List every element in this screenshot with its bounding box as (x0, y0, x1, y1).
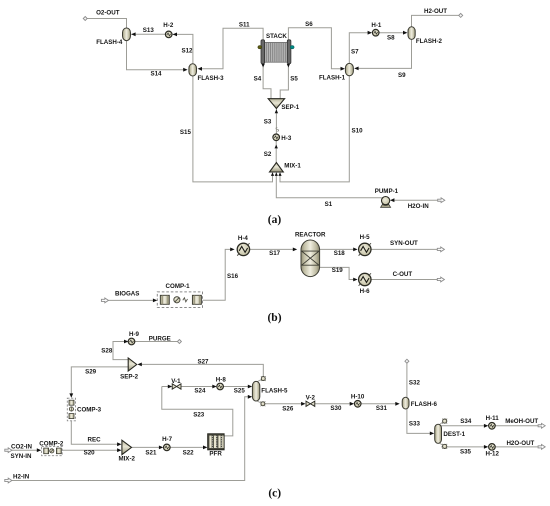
arrow S34 into H-11 (484, 424, 488, 428)
svg-text:O2-OUT: O2-OUT (96, 10, 120, 17)
feed marker H2-IN (5, 478, 12, 483)
svg-text:PFR: PFR (209, 451, 222, 458)
feed marker H2O-IN (438, 198, 445, 203)
flash drum FLASH-3 (189, 64, 197, 76)
svg-text:SYN-IN: SYN-IN (11, 453, 33, 460)
svg-text:V-2: V-2 (306, 394, 316, 401)
wire S25 (223, 386, 248, 388)
arrow S7 into H-1 (368, 31, 372, 35)
wire S32 (406, 363, 408, 397)
arrow S30 into H-10 (350, 402, 354, 406)
wire S34 (441, 425, 484, 427)
svg-text:H-12: H-12 (485, 451, 499, 458)
svg-text:PURGE: PURGE (149, 335, 171, 342)
arrow S12 into H-2 (173, 33, 177, 37)
arrow S1 into MIX-1 (275, 172, 278, 176)
arrow S26 into V-2 (301, 402, 305, 406)
svg-text:S6: S6 (305, 21, 313, 28)
arrow feed into COMP-2 (37, 448, 41, 452)
arrow S29 into COMP-3 (69, 393, 73, 397)
svg-text:S8: S8 (387, 35, 395, 42)
arrow S2 into H-3 (275, 145, 278, 149)
wire S12 (172, 34, 193, 63)
svg-text:S23: S23 (193, 412, 205, 419)
arrow S25 into FLASH-5 (248, 385, 252, 389)
arrow S13 into FLASH-4 (131, 32, 135, 36)
product marker O2-OUT (83, 17, 87, 21)
wire S35 (441, 446, 484, 448)
product marker H2O-OUT (538, 445, 545, 450)
svg-text:S3: S3 (264, 119, 272, 126)
svg-text:S25: S25 (234, 388, 246, 395)
svg-text:SYN-OUT: SYN-OUT (390, 240, 418, 247)
svg-text:H-11: H-11 (486, 415, 500, 422)
valve V-1 (172, 384, 181, 389)
svg-text:S11: S11 (239, 21, 250, 28)
flash drum FLASH-2 (408, 27, 415, 40)
wire S14 (127, 40, 184, 69)
svg-text:(a): (a) (268, 214, 282, 226)
heater H-9 (128, 338, 135, 345)
svg-text:S32: S32 (409, 380, 421, 387)
arrow S6 into FLASH-1 (341, 67, 345, 71)
svg-text:S28: S28 (101, 347, 113, 354)
svg-text:S2: S2 (264, 151, 272, 158)
svg-text:DEST-1: DEST-1 (443, 431, 465, 438)
svg-text:H2O-OUT: H2O-OUT (506, 440, 534, 447)
arrow S24 into H-8 (212, 385, 216, 389)
wire REC (71, 421, 117, 445)
fuel cell STACK (258, 40, 294, 64)
arrow S22 into PFR (203, 446, 207, 450)
svg-text:S21: S21 (145, 449, 157, 456)
heat exchanger H-5 (359, 243, 371, 255)
svg-text:H-1: H-1 (371, 22, 382, 29)
arrow H2O-IN into PUMP-1 (390, 198, 394, 202)
wire S18 (319, 248, 353, 250)
svg-text:H-5: H-5 (360, 234, 371, 241)
arrow BIOGAS into COMP-1 (153, 299, 157, 303)
arrow S14 into FLASH-3 (183, 68, 187, 72)
svg-text:S1: S1 (325, 201, 333, 208)
svg-text:S24: S24 (194, 388, 206, 395)
wire MeOH-OUT (495, 425, 538, 427)
heater H-8 (217, 383, 224, 390)
product marker C-OUT (437, 277, 444, 282)
wire S5 (280, 67, 288, 99)
svg-text:COMP-1: COMP-1 (166, 283, 191, 290)
wire S27 (141, 364, 263, 376)
distillation column DEST-1 (435, 419, 447, 449)
wire H2O-OUT (495, 446, 538, 448)
svg-text:SEP-2: SEP-2 (120, 374, 138, 381)
svg-text:H-4: H-4 (238, 235, 249, 242)
separator SEP-1 (268, 99, 284, 109)
heater H-3 (273, 134, 280, 141)
svg-text:FLASH-1: FLASH-1 (319, 74, 346, 81)
svg-text:S14: S14 (150, 71, 162, 78)
wire S33 (407, 409, 430, 434)
arrow S15 into MIX-1 (271, 172, 274, 176)
wire O2-OUT (87, 19, 127, 29)
compressor COMP-2 (42, 446, 63, 455)
svg-text:V-1: V-1 (171, 378, 181, 385)
svg-text:H-6: H-6 (360, 288, 371, 295)
wire S31 (361, 403, 396, 405)
reactor REACTOR (301, 240, 320, 277)
svg-text:(b): (b) (267, 312, 281, 324)
svg-text:H-9: H-9 (129, 331, 140, 338)
wire SYN-OUT (371, 248, 437, 250)
svg-text:S13: S13 (143, 27, 155, 34)
feed marker BIOGAS (101, 298, 108, 303)
arrow S35 into H-12 (484, 445, 488, 449)
svg-text:C-OUT: C-OUT (393, 271, 413, 278)
arrow S28 into H-9 (124, 340, 128, 344)
svg-text:S18: S18 (334, 250, 346, 257)
wire H2-IN (12, 397, 248, 481)
svg-text:S31: S31 (376, 405, 388, 412)
svg-text:MeOH-OUT: MeOH-OUT (505, 418, 538, 425)
flash drum FLASH-1 (345, 63, 353, 75)
wire BIOGAS (109, 299, 154, 301)
arrow S21 into H-7 (159, 446, 163, 450)
valve V-2 (306, 401, 315, 406)
svg-text:PUMP-1: PUMP-1 (375, 188, 399, 195)
wire S21 (132, 446, 160, 448)
svg-text:REC: REC (88, 437, 102, 444)
arrow S11 into FLASH-3 (198, 67, 202, 71)
svg-text:S30: S30 (330, 405, 342, 412)
plug flow reactor PFR (208, 434, 224, 450)
product marker SYN-OUT (437, 247, 444, 252)
arrow S10 into MIX-1 (278, 172, 281, 176)
flash drum FLASH-4 (123, 28, 131, 41)
compressor COMP-3 (67, 398, 75, 421)
svg-text:H2-IN: H2-IN (13, 474, 30, 481)
arrow S27 into SEP-2 (137, 363, 141, 367)
svg-text:MIX-1: MIX-1 (284, 163, 301, 170)
svg-text:S10: S10 (352, 127, 364, 134)
svg-text:MIX-2: MIX-2 (118, 456, 135, 463)
svg-text:S17: S17 (269, 250, 281, 257)
arrow S9 into FLASH-1 (354, 67, 358, 71)
wire S17 (250, 248, 296, 250)
wire H2-OUT (412, 15, 459, 27)
svg-text:S33: S33 (409, 420, 421, 427)
svg-text:FLASH-5: FLASH-5 (261, 388, 288, 395)
wire S8 (379, 32, 403, 34)
svg-text:S35: S35 (460, 449, 472, 456)
heater H-1 (372, 29, 379, 36)
product marker S32 (405, 359, 409, 363)
svg-text:H-2: H-2 (163, 22, 174, 29)
svg-text:S29: S29 (85, 369, 97, 376)
wire S22 (170, 446, 204, 448)
svg-text:S15: S15 (180, 129, 192, 136)
arrow S18 into H-5 (353, 248, 357, 252)
heater H-10 (354, 401, 361, 408)
arrow S23 into V-1 (168, 385, 172, 389)
svg-text:H-3: H-3 (281, 135, 292, 142)
wire S26 (265, 403, 350, 405)
heat stream mark on S3 (276, 127, 279, 131)
wire S10 (280, 76, 349, 182)
pump PUMP-1 (381, 197, 391, 208)
wire H2O-IN (393, 199, 438, 201)
arrow S19 into H-6 (353, 278, 357, 282)
arrow S16 into H-4 (230, 248, 234, 252)
wire S3 (275, 109, 277, 135)
wire CO2-IN SYN-IN (12, 449, 37, 451)
wire S4 (263, 67, 271, 99)
svg-text:S26: S26 (282, 405, 294, 412)
wire S29 (71, 367, 128, 394)
arrow S8 into FLASH-2 (403, 31, 407, 35)
mixer MIX-2 (122, 440, 132, 454)
arrow S20 into MIX-2 (117, 448, 121, 452)
wire S19 (319, 267, 353, 279)
svg-text:BIOGAS: BIOGAS (115, 291, 139, 298)
heater H-12 (489, 444, 496, 451)
arrow S33 into DEST-1 (430, 432, 434, 436)
mixer MIX-1 (270, 163, 284, 173)
svg-text:(c): (c) (268, 487, 281, 499)
feed marker CO2-IN SYN-IN (5, 448, 12, 453)
heat exchanger H-6 (359, 273, 371, 285)
svg-text:S20: S20 (84, 449, 96, 456)
svg-text:H-10: H-10 (351, 394, 365, 401)
heater H-2 (165, 31, 172, 38)
svg-text:S5: S5 (290, 75, 298, 82)
wire S20 (62, 449, 117, 451)
svg-text:H2-OUT: H2-OUT (424, 8, 447, 15)
svg-text:SEP-1: SEP-1 (281, 104, 299, 111)
wire C-OUT (371, 279, 437, 281)
arrow stack outlet right (287, 64, 290, 68)
wire S2 (275, 140, 277, 163)
svg-text:S9: S9 (398, 72, 406, 79)
wire S13 (131, 33, 165, 35)
heater H-11 (489, 423, 496, 430)
svg-text:S34: S34 (460, 418, 472, 425)
svg-text:REACTOR: REACTOR (295, 232, 326, 239)
flash drum FLASH-5 (252, 376, 265, 406)
wire S7 (349, 33, 368, 64)
arrow S17 into REACTOR (293, 248, 297, 252)
svg-text:S16: S16 (227, 273, 239, 280)
wire S6 (288, 28, 341, 69)
arrow REC into MIX-2 (117, 442, 121, 446)
heater H-7 (164, 444, 171, 451)
flash drum FLASH-6 (402, 397, 409, 409)
svg-text:FLASH-6: FLASH-6 (411, 401, 438, 408)
svg-text:H2O-IN: H2O-IN (408, 203, 430, 210)
svg-text:COMP-2: COMP-2 (39, 441, 64, 448)
svg-text:COMP-3: COMP-3 (77, 407, 102, 414)
wire S1 (276, 176, 382, 198)
wire PURGE (135, 341, 178, 343)
product marker MeOH-OUT (538, 423, 545, 428)
wire S16 (203, 249, 231, 300)
arrow S3 into SEP-1 (275, 109, 278, 113)
svg-text:FLASH-4: FLASH-4 (96, 39, 123, 46)
compressor COMP-1 (157, 292, 202, 308)
product marker PURGE (177, 340, 181, 344)
wire S15 (193, 76, 273, 182)
wire S11 (201, 28, 264, 69)
svg-text:H-8: H-8 (216, 376, 227, 383)
arrow S31 into FLASH-6 (395, 402, 399, 406)
splitter SEP-2 (128, 358, 137, 371)
arrow stack outlet left (261, 64, 264, 68)
svg-text:H-7: H-7 (162, 436, 173, 443)
svg-text:S19: S19 (332, 267, 344, 274)
product marker H2-OUT (459, 13, 463, 17)
wire S28 (113, 342, 128, 360)
svg-text:S12: S12 (181, 47, 193, 54)
heat exchanger H-4 (237, 243, 249, 255)
svg-text:S4: S4 (254, 75, 262, 82)
svg-text:S22: S22 (183, 449, 195, 456)
arrow H2-IN into FLASH-5 (248, 395, 252, 399)
svg-text:CO2-IN: CO2-IN (11, 444, 33, 451)
svg-text:STACK: STACK (266, 33, 287, 40)
svg-text:S7: S7 (351, 49, 359, 56)
wire S23 (162, 387, 233, 436)
svg-text:S27: S27 (197, 358, 209, 365)
svg-text:FLASH-2: FLASH-2 (416, 38, 443, 45)
wire S9 (358, 39, 412, 68)
svg-text:FLASH-3: FLASH-3 (197, 75, 224, 82)
wire S24 (162, 386, 213, 388)
